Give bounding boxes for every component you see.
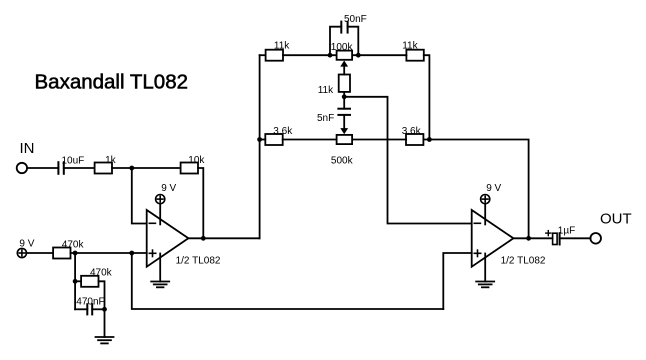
svg-text:10uF: 10uF [62,155,85,166]
wire bottom line left [260,139,266,141]
ground bias network [96,337,114,343]
node right rail bottom [427,137,432,142]
wire 1k to 10k [112,167,181,169]
wire branch down [74,253,76,309]
wire 1uF to OUT [560,237,591,239]
svg-text:Baxandall TL082: Baxandall TL082 [35,71,189,94]
wire IN to C1 [27,167,58,169]
ground U1 [151,254,169,288]
wire bottom line to feedback corner [423,140,528,239]
wire U1 output [188,237,259,239]
svg-text:470k: 470k [90,268,113,279]
svg-text:3.6k: 3.6k [273,126,293,137]
wire 470k to U1 plus [71,252,147,254]
capacitor 5nF [317,109,350,124]
wire bias bottom rail [132,253,444,309]
potentiometer 500k [331,135,354,167]
IN terminal [17,163,27,173]
svg-text:11k: 11k [318,85,334,96]
wire left rail [259,55,261,238]
resistor 1k [95,155,117,173]
resistor 3.6k left [265,126,293,145]
svg-text:9 V: 9 V [161,183,176,194]
node 470k2 left junction [73,279,78,284]
svg-text:9 V: 9 V [19,239,34,250]
resistor 470k lower [81,268,113,287]
capacitor 10uF [58,155,84,174]
wire 5nF to 500k wiper arrow [343,115,345,129]
resistor 3.6k right [402,126,424,145]
op-amp U1 [147,210,221,267]
node bias to bottom rail [129,251,134,256]
capacitor 470nF [75,297,105,315]
wire to 470k2 [75,280,81,282]
potentiometer 100k [331,42,354,75]
node 100k right [356,53,361,58]
svg-text:100k: 100k [331,42,354,53]
node cap right junction [102,307,107,312]
svg-text:1/2 TL082: 1/2 TL082 [501,256,546,267]
wire 500k to 3.6k right [352,139,406,141]
op-amp U2 [472,210,546,267]
capacitor 1uF polarized [546,226,575,245]
node bias branch [73,251,78,256]
resistor 11k middle vertical [318,75,350,96]
wire U2 plus input [443,253,471,309]
wire 11k to node X [343,92,345,109]
svg-text:470k: 470k [62,240,85,251]
svg-text:OUT: OUT [600,210,632,227]
wire top right corner down [424,55,430,139]
wire C1 to R 1k [64,167,95,169]
svg-text:470nF: 470nF [76,297,104,308]
svg-text:10k: 10k [188,155,205,166]
wire to op-amp minus input [132,168,147,224]
OUT terminal [590,233,601,244]
node 100k left [328,53,333,58]
wire U2 output [513,237,552,239]
resistor 470k bias [53,240,84,259]
wire 10k to feedback corner [198,168,203,238]
wire 9V to 470k [27,252,54,254]
resistor 11k right [402,41,424,61]
resistor 11k left [266,41,291,61]
wire 470k2 right corner down [99,281,105,337]
power 9V U1 [156,183,177,224]
node U2 output junction [526,236,531,241]
power 9V U2 [481,183,502,224]
svg-text:3.6k: 3.6k [402,126,422,137]
node junction input [129,166,134,171]
ground U2 [476,254,494,288]
node left rail bottom [257,137,262,142]
wire pot to 11k right [352,54,406,56]
wire top line left [260,54,266,56]
power 9V bias source [17,239,34,258]
svg-text:50nF: 50nF [344,14,367,25]
svg-text:9 V: 9 V [486,183,501,194]
svg-text:1/2 TL082: 1/2 TL082 [176,256,221,267]
node X junction [342,94,347,99]
svg-text:5nF: 5nF [317,113,334,124]
svg-text:IN: IN [20,140,35,157]
wire node X to U2 minus [344,97,472,224]
svg-text:11k: 11k [402,41,418,52]
resistor 10k [181,155,206,174]
svg-text:11k: 11k [274,41,290,52]
node U1 output junction [201,236,206,241]
capacitor 50nF branch [330,14,367,55]
svg-text:500k: 500k [331,156,354,167]
svg-text:1µF: 1µF [558,226,575,237]
svg-text:1k: 1k [105,155,117,166]
wire 3.6k to 500k [283,139,337,141]
wire 11k to pot [283,54,336,56]
